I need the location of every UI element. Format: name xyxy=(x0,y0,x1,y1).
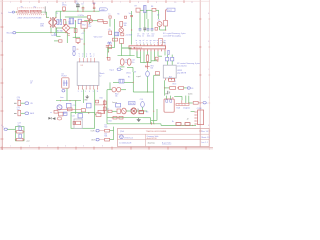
node bridge out xyxy=(75,37,76,38)
wire bal right xyxy=(121,89,126,91)
node tb4 xyxy=(23,139,24,140)
sheet border right inner line xyxy=(199,0,201,147)
wire bal drop xyxy=(109,82,111,89)
diode D4 oval xyxy=(112,87,116,92)
svg-text:Fu: Fu xyxy=(21,6,23,8)
svg-text:230V OR 115V FOR FUSE: 230V OR 115V FOR FUSE xyxy=(18,17,43,19)
svg-text:PC817: PC817 xyxy=(61,76,66,78)
wire con stub xyxy=(191,111,195,113)
svg-text:1: 1 xyxy=(79,56,80,58)
label rail note xyxy=(172,121,174,123)
wire rail jog xyxy=(161,124,196,126)
svg-text:TDA: TDA xyxy=(176,107,180,110)
connector RCA CD xyxy=(25,102,29,105)
svg-text:AUX: AUX xyxy=(30,112,35,115)
wire bl stub xyxy=(7,128,15,130)
resistor R4 xyxy=(64,20,66,27)
node Q1 node xyxy=(165,29,166,30)
U3 bottom pin labels xyxy=(78,91,99,93)
wire OUT+ link xyxy=(99,130,104,132)
wire fb right xyxy=(124,81,133,83)
wire rail left v xyxy=(106,90,108,124)
sheet border bottom outer line xyxy=(0,148,213,150)
regulator U2 body xyxy=(81,21,87,28)
label tone out xyxy=(26,139,30,142)
label c12 gnd blue xyxy=(134,72,137,74)
svg-text:LS: LS xyxy=(191,88,194,90)
resistor R37 xyxy=(76,121,81,125)
wire spk2 h xyxy=(189,102,193,104)
node row b1 xyxy=(112,117,113,118)
wire bridge right link xyxy=(70,27,75,29)
resistor R47 xyxy=(124,16,126,18)
node bus tap xyxy=(84,43,85,44)
red chain v xyxy=(104,100,106,114)
svg-text:14: 14 xyxy=(90,56,92,58)
svg-text:10k: 10k xyxy=(124,25,127,27)
resistor R23 xyxy=(113,116,117,119)
label U4 xyxy=(61,74,66,78)
node h48 dot xyxy=(134,47,135,48)
wire rca link 2 xyxy=(21,112,25,114)
amplifier IC U1 body xyxy=(129,46,166,50)
node lbox xyxy=(56,27,57,28)
wire flag lead xyxy=(166,10,167,21)
node tb2 xyxy=(23,131,24,132)
power flag +V arrow xyxy=(93,2,95,7)
wire drop t1 xyxy=(109,19,111,27)
wire mid v1536 xyxy=(153,75,155,95)
node primary bottom xyxy=(50,32,51,33)
svg-text:9: 9 xyxy=(161,42,162,44)
connector X2 Neutral pin xyxy=(13,32,16,34)
resistor R39 xyxy=(95,113,101,117)
svg-text:STK4142 II: STK4142 II xyxy=(134,47,143,49)
label C13 xyxy=(125,59,128,63)
wire rca stub 2 xyxy=(14,112,17,114)
label pot xyxy=(150,65,153,69)
label input2 xyxy=(126,72,131,75)
wire primary drop xyxy=(46,12,48,17)
label strip b xyxy=(183,107,187,110)
transformer TR1 core xyxy=(52,17,53,28)
preamp IC U3 body xyxy=(77,62,99,86)
label OUT- xyxy=(91,140,96,142)
net flag +35V xyxy=(98,8,108,11)
wire out join v xyxy=(113,127,115,140)
svg-text:50k: 50k xyxy=(150,68,153,70)
svg-text:R29: R29 xyxy=(63,113,66,115)
svg-text:J2: J2 xyxy=(187,118,189,120)
U1 top pin stubs xyxy=(137,44,165,46)
label q row xyxy=(107,109,109,111)
label R49 xyxy=(124,23,127,27)
node rail junction b xyxy=(77,11,78,12)
svg-text:CD: CD xyxy=(30,103,33,105)
svg-text:C14: C14 xyxy=(132,59,135,61)
resistor R26 xyxy=(176,123,181,126)
label left of strip xyxy=(186,106,190,109)
svg-text:Rev: 1.0: Rev: 1.0 xyxy=(201,131,208,133)
node box2 top xyxy=(88,112,89,113)
svg-text:50Hz: 50Hz xyxy=(40,25,44,27)
wire k1 red v xyxy=(181,100,183,103)
wire row a4 xyxy=(141,110,147,112)
label line in xyxy=(30,81,33,85)
svg-text:TDA 200+S1S3 DMMS: TDA 200+S1S3 DMMS xyxy=(146,130,167,133)
wire h556 xyxy=(118,55,135,57)
wire v836 xyxy=(83,89,85,103)
label r25 xyxy=(146,112,149,114)
wire OUT- out xyxy=(110,139,114,141)
inner module box xyxy=(74,119,82,128)
node primary top xyxy=(46,17,47,18)
label 230V mains note xyxy=(18,17,43,19)
svg-text:Rbal: Rbal xyxy=(115,93,119,95)
label TR1 xyxy=(56,13,58,15)
resistor R38 side xyxy=(73,121,75,124)
node rail r2 xyxy=(192,125,193,126)
svg-text:2u2: 2u2 xyxy=(17,109,20,111)
wire pin2 down xyxy=(136,51,138,57)
transistor Q5 xyxy=(57,105,62,110)
note text right mid2 xyxy=(177,70,187,74)
label jasco dark xyxy=(112,102,117,104)
svg-text:OUT-: OUT- xyxy=(91,140,96,142)
wire row a1 xyxy=(112,110,117,112)
connector X1 Live pin xyxy=(12,11,15,13)
svg-text:sg: sg xyxy=(139,40,141,42)
label RCA AUX xyxy=(30,112,35,115)
node nr3 xyxy=(75,100,76,101)
svg-text:2: 2 xyxy=(29,2,31,4)
inductor L3 blue xyxy=(108,42,112,44)
svg-text:C6: C6 xyxy=(76,49,78,51)
svg-text:CON8: CON8 xyxy=(197,108,202,110)
capacitor C8 dark xyxy=(143,28,146,32)
capacitor C3 xyxy=(93,7,95,11)
wire bank rail a xyxy=(140,9,144,11)
svg-text:nf: nf xyxy=(143,40,145,42)
label B1 xyxy=(54,33,58,37)
wire pin7 down xyxy=(154,51,156,61)
wire out v xyxy=(164,80,166,95)
resistor R20 xyxy=(193,102,198,105)
border right zone ticks xyxy=(199,19,210,131)
wire bank drop r xyxy=(158,10,160,19)
U1 pin labels row xyxy=(136,39,166,42)
border bottom zone ticks xyxy=(2,147,186,150)
fuse F1 xyxy=(19,10,29,13)
wire row b right xyxy=(143,118,151,124)
svg-text:Vdrive 12V: Vdrive 12V xyxy=(94,36,104,38)
transistor Q3 xyxy=(122,108,127,114)
resistor R46 xyxy=(109,16,111,18)
label small blue bl xyxy=(50,112,52,114)
K1 internals xyxy=(166,100,172,102)
label C14 xyxy=(132,59,135,63)
resistor R31 xyxy=(103,107,106,111)
wire mid h753 xyxy=(154,74,160,76)
label C10 value xyxy=(151,33,154,37)
node tb3 xyxy=(15,139,16,140)
net label box mid xyxy=(129,101,135,105)
wire rail drop left xyxy=(59,11,61,22)
resistor R1 xyxy=(63,7,66,11)
node r49 out xyxy=(121,27,122,28)
svg-text:Input: Input xyxy=(110,68,115,71)
wire c13 gnd xyxy=(120,66,125,68)
svg-text:4: 4 xyxy=(143,42,144,44)
node row b2 xyxy=(118,117,119,118)
wire rca link 1 xyxy=(21,102,25,104)
red h bus xyxy=(95,104,105,106)
capacitor C11 inline xyxy=(130,16,133,17)
wire k1 route xyxy=(174,96,182,100)
transformer TR1 primary winding xyxy=(49,18,51,28)
wire cap drop 3 xyxy=(147,19,149,29)
choke L2 blue xyxy=(69,18,73,24)
wire v757 xyxy=(75,101,77,114)
wire pin6 down xyxy=(150,51,152,62)
U1 bottom pin stubs xyxy=(137,49,166,51)
wire c11 down xyxy=(131,30,133,44)
wire k1 stub a xyxy=(166,96,168,99)
inductor L1 blue xyxy=(166,57,169,61)
svg-text:In: In xyxy=(2,127,3,129)
label C9 value xyxy=(147,33,151,37)
title drawn by xyxy=(148,141,172,144)
node row a xyxy=(140,110,141,111)
capacitor C17 box xyxy=(66,103,71,108)
svg-text:Rnet: Rnet xyxy=(173,83,177,86)
node secondary top xyxy=(55,17,56,18)
node rail junction c xyxy=(82,11,83,12)
connector LS- jack xyxy=(198,102,208,105)
resistor R15 xyxy=(120,38,124,43)
svg-text:10k: 10k xyxy=(104,133,107,135)
logo velleman xyxy=(120,135,134,139)
svg-text:+Out 35V: +Out 35V xyxy=(125,34,133,37)
wire c16 stub xyxy=(142,107,144,110)
wire long bottom rail xyxy=(107,123,161,125)
wire pin3 down xyxy=(140,51,142,62)
resistor R3 xyxy=(104,21,108,23)
svg-text:C10: C10 xyxy=(151,33,154,35)
node amp gnd xyxy=(147,62,148,63)
svg-text:gn: gn xyxy=(150,40,152,42)
transistor Q6 xyxy=(119,28,123,32)
svg-text:+15: +15 xyxy=(108,29,111,31)
resistor R19 xyxy=(179,87,184,90)
capacitor C22 xyxy=(19,127,21,130)
svg-text:R7: R7 xyxy=(135,6,137,8)
svg-text:Q1: Q1 xyxy=(158,19,160,21)
wire U2 long drop xyxy=(83,31,85,58)
svg-text:R41: R41 xyxy=(104,135,107,137)
node c25 end xyxy=(107,57,108,58)
resistor R30 xyxy=(103,101,106,105)
node out v dot xyxy=(164,87,165,88)
svg-text:0V: 0V xyxy=(134,72,137,74)
wire v946 xyxy=(94,89,96,114)
wire h48 xyxy=(122,47,131,49)
label Vcc mid xyxy=(129,13,132,15)
net flag OUT top right xyxy=(167,8,175,12)
wire h47 xyxy=(109,47,115,49)
svg-text:3: 3 xyxy=(78,91,79,93)
svg-text:Sheet: 1/1: Sheet: 1/1 xyxy=(201,136,209,139)
connector X2 Neutral label xyxy=(7,32,14,35)
svg-text:9: 9 xyxy=(156,2,158,4)
svg-text:B: B xyxy=(208,41,210,43)
U3 top pins xyxy=(80,58,95,62)
node neutral join xyxy=(67,32,68,33)
label U3 ref xyxy=(81,65,83,67)
wire row a3 xyxy=(136,110,141,112)
node U2 out xyxy=(84,30,85,31)
label 4ohm xyxy=(188,93,193,95)
svg-text:1Vrms: 1Vrms xyxy=(126,72,131,75)
ferrite bead FB2 xyxy=(115,32,119,36)
svg-text:Velleman: Velleman xyxy=(124,137,134,139)
resistor R40 xyxy=(105,129,110,132)
svg-text:bias: bias xyxy=(60,97,63,99)
svg-text:Vcc: Vcc xyxy=(129,13,132,15)
wire bridge out v xyxy=(74,21,76,38)
resistor cluster right xyxy=(74,29,77,33)
title block divider v mid xyxy=(145,134,147,146)
label J2 xyxy=(187,118,189,120)
capacitor C5 pair xyxy=(57,20,62,25)
wire t2 in b xyxy=(171,61,173,65)
transformer TR1 secondary winding xyxy=(54,18,56,28)
capacitor C2 xyxy=(82,6,85,12)
resistor R48 xyxy=(159,39,163,46)
resistor R8 xyxy=(151,6,156,11)
wire v1215 xyxy=(121,43,123,55)
wire r1 stub xyxy=(63,10,65,13)
wire pin4 down xyxy=(143,51,145,62)
sheet border left inner line xyxy=(2,0,4,150)
svg-text:R24: R24 xyxy=(109,120,112,122)
wire pin route box xyxy=(122,44,132,48)
wire bridge feed xyxy=(65,21,67,24)
label R40 xyxy=(104,124,107,128)
title block outer frame xyxy=(118,128,210,146)
label C3 value xyxy=(81,3,83,5)
resistor R28 xyxy=(67,108,72,111)
transistor Q1 xyxy=(157,19,162,26)
diode mark small xyxy=(48,117,51,120)
wire primary link xyxy=(47,16,49,18)
connector OUT+ jack xyxy=(96,129,99,132)
comp left pair xyxy=(58,112,67,116)
resistor R12 xyxy=(155,57,158,61)
svg-text:1: 1 xyxy=(10,2,12,4)
svg-text:2: 2 xyxy=(136,42,137,44)
speaker relay T2 body xyxy=(163,65,176,78)
U3 side label xyxy=(99,73,104,77)
node rail junction d xyxy=(93,11,94,12)
capacitor C20 xyxy=(18,100,21,105)
svg-text:B2 35A: B2 35A xyxy=(57,29,63,32)
note text right mid xyxy=(177,62,200,67)
resistor R34 xyxy=(95,100,98,103)
CON1 pins xyxy=(195,112,198,125)
node k1 pin xyxy=(172,97,173,98)
title date row xyxy=(119,142,131,144)
label D3 xyxy=(157,14,159,16)
label lower mid2 xyxy=(63,113,66,115)
svg-text:100n: 100n xyxy=(147,36,151,38)
capacitor C1 polarized xyxy=(76,3,80,12)
wire secondary drop xyxy=(55,27,57,32)
capacitor C12 electrolytic xyxy=(146,70,150,77)
label q4 xyxy=(137,109,139,111)
wire spk xyxy=(184,87,187,89)
capacitor C19 box xyxy=(116,103,121,107)
svg-text:8: 8 xyxy=(157,42,158,44)
label c12 gnd dark xyxy=(136,76,140,78)
svg-text:C7: C7 xyxy=(137,33,139,35)
title text TDA xyxy=(120,130,167,133)
resistor R24 xyxy=(119,116,123,119)
sheet border bottom inner line xyxy=(0,146,213,148)
wire t2 stub a xyxy=(166,55,168,58)
wire spk pair a xyxy=(185,96,187,103)
svg-text:amp MUTE: amp MUTE xyxy=(177,73,187,75)
wire cap drop 2 xyxy=(144,13,146,28)
label strip a xyxy=(176,107,180,110)
label C2 value xyxy=(75,1,79,5)
capacitor C13 electrolytic xyxy=(120,59,124,66)
wire OUT+ out xyxy=(110,130,114,132)
ferrite bead FB1 xyxy=(119,79,124,83)
label C21 xyxy=(17,107,20,111)
resistor R2b xyxy=(88,15,91,18)
svg-text:OUT+: OUT+ xyxy=(90,131,96,133)
optocoupler U4 body xyxy=(62,78,69,88)
capacitor C7 xyxy=(139,29,142,32)
resistor R16 xyxy=(108,45,112,48)
svg-text:+35V: +35V xyxy=(92,3,97,5)
wire mid h92 xyxy=(133,91,153,93)
enclosure right post xyxy=(44,6,46,13)
label fb2 xyxy=(125,34,133,37)
node bridge in r xyxy=(75,20,76,21)
svg-text:Lev: 1.1: Lev: 1.1 xyxy=(201,142,207,144)
label D2 blue xyxy=(68,21,71,25)
capacitor C21 xyxy=(18,110,21,115)
wire fb left xyxy=(113,81,119,83)
sheet border left outer line xyxy=(0,0,2,150)
label C4 value xyxy=(92,3,97,5)
inductor L2 blue xyxy=(171,57,174,61)
wire bal left xyxy=(107,89,112,91)
wire node rail xyxy=(56,100,81,102)
wire feedback bus xyxy=(137,51,141,57)
label Ls top xyxy=(109,14,111,16)
capacitor C6 small xyxy=(73,46,79,55)
resistor R17 xyxy=(169,77,175,82)
resistor R5 xyxy=(54,40,62,42)
wire c14 jog xyxy=(127,67,133,72)
svg-text:6: 6 xyxy=(89,91,90,93)
label r15 xyxy=(108,43,111,45)
title sheet cell xyxy=(201,136,209,139)
sheet border top line xyxy=(0,0,210,2)
